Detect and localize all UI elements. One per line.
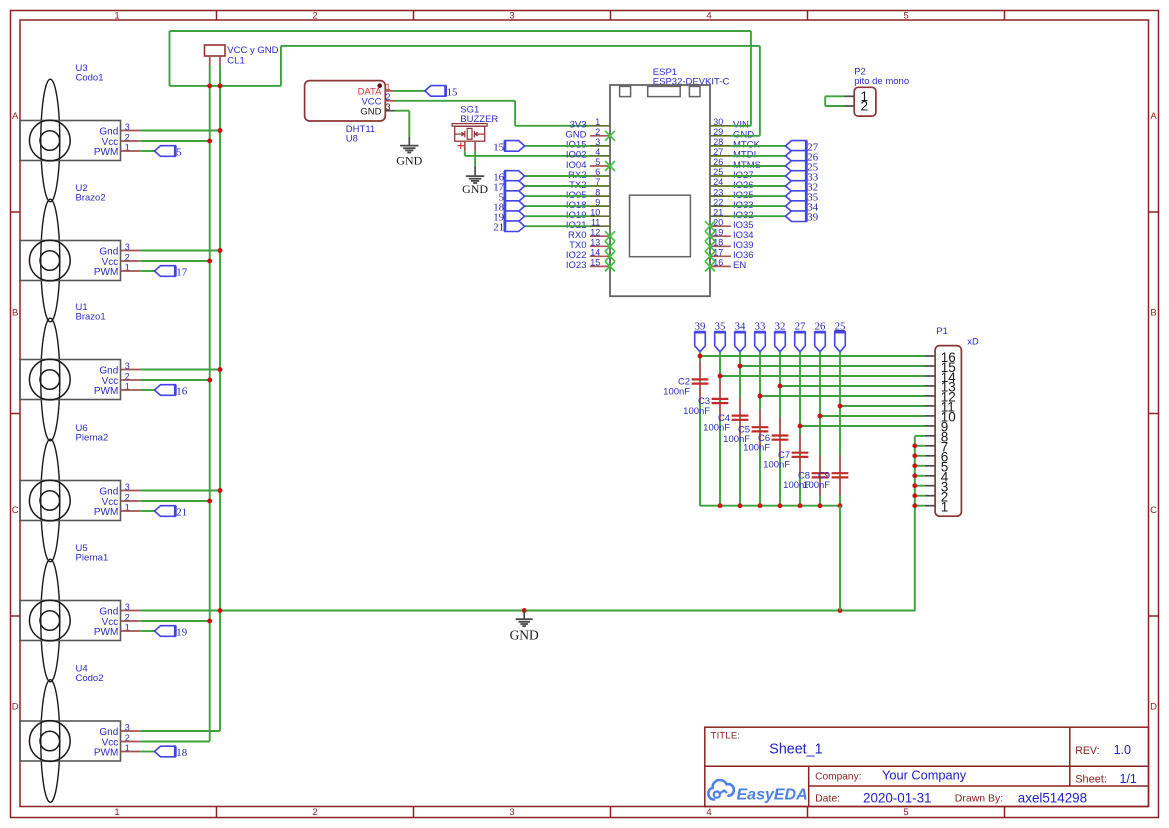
wire U8 GND horizontal [395,110,410,112]
motor U5 pin 3 stub [121,610,141,612]
junction at VCC bus / tie [207,83,212,88]
wire U2 PWM to net flag 17 [140,270,154,272]
svg-text:EN: EN [733,260,746,271]
ESP1 pin 20 IO35 stub [710,225,731,227]
ESP1 pin 13 TX0 stub [590,245,610,247]
svg-text:100nF: 100nF [803,480,830,491]
ESP1 pin 1 3V3 stub [590,125,610,127]
buzzer SG1 pin 1 stub [464,141,466,151]
wire column 26 vertical [819,352,821,506]
svg-text:A: A [1150,111,1157,122]
capacitor C9 bottom plate [832,476,849,478]
svg-text:15: 15 [590,258,600,268]
wire top VIN net: frame-left vertical [169,31,171,86]
capacitor C3 top plate [712,398,729,400]
motor U3 outer circle [29,120,70,161]
capacitor C6 top plate [772,434,789,436]
wire U6 Gnd to GND bus [140,490,220,492]
svg-text:GND: GND [510,627,539,642]
wire to P1 pin 15 [740,365,925,367]
buzzer SG1 left plate [464,131,466,138]
net port CL1 VCC y GND body [205,45,226,56]
svg-text:30: 30 [713,117,723,127]
frame row tick y=212 left [11,211,21,213]
P1 pin 8 stub [925,435,935,437]
frame row tick y=616 left [11,615,21,617]
motor U6 inner circle [40,491,60,511]
junction bottom bus x=840 [838,503,843,508]
P1 pin 4 stub [925,475,935,477]
svg-text:3: 3 [595,137,600,147]
motor U4 body [20,721,121,761]
ESP1 pin 22 IO33 stub [710,205,731,207]
ESP1 pin 12 RX0 stub [590,235,610,237]
net flag 18 on U4 PWM [155,746,176,757]
wire matrix bottom bus [700,505,840,507]
capacitor C2 top plate [692,378,709,380]
motor U2 propeller blade ellipse [41,199,60,322]
ESP1 pin 17 no-connect X [705,251,715,261]
motor U3 propeller blade ellipse [41,79,60,202]
junction P1 pin 3 tap [912,483,917,488]
wire P1 pin 2 tap [915,495,925,497]
svg-text:PWM: PWM [94,147,118,158]
ground symbol stem SG1 [474,166,476,176]
capacitor C4 bottom plate [732,419,749,421]
net flag 16 at ESP1 pin 6 [505,171,525,182]
wire ESP1 pin 28 to net flag 27 [731,145,786,147]
ground symbol U8 [400,145,418,147]
svg-text:PWM: PWM [94,747,118,758]
net flag 5 at ESP1 pin 8 [505,191,525,202]
ESP1 pin 15 IO23 stub [590,265,610,267]
P1 pin 15 stub [925,365,935,367]
net flag 27 at ESP1 pin 28 [786,141,807,152]
wire P1 pin 4 tap [915,475,925,477]
motor U3 pin 3 stub [121,130,141,132]
ESP1 pin 16 no-connect X [705,261,715,271]
net flag 35 at ESP1 pin 23 [786,191,807,202]
svg-text:15: 15 [447,86,458,98]
ESP1 pin 5 IO04 stub [590,165,610,167]
junction ground bus at GND symbol [522,608,527,613]
motor U3 pin 2 stub [121,140,141,142]
svg-text:Date:: Date: [815,793,840,805]
capacitor C2 top stub [699,362,701,380]
ESP1 pin 3 IO15 stub [590,145,610,147]
svg-text:12: 12 [590,227,600,237]
motor U5 body [20,601,121,641]
svg-text:P1: P1 [936,326,948,337]
junction column x=740 row P1 pin 15 [738,364,743,369]
ESP1 pin 19 IO34 stub [710,235,731,237]
wire U4 PWM to net flag 18 [140,751,154,753]
wire ESP1 pin 23 to net flag 35 [731,195,786,197]
ESP1 pin 12 no-connect X [605,231,615,241]
svg-text:Gnd: Gnd [99,126,118,137]
sensor U8 DHT11 body [305,81,386,121]
svg-text:22: 22 [713,197,723,207]
svg-text:13: 13 [590,238,600,248]
svg-text:Codo1: Codo1 [76,73,104,84]
junction column x=780 row P1 pin 13 [778,384,783,389]
junction column x=820 row P1 pin 10 [818,414,823,419]
capacitor C5 top plate [752,426,769,428]
wire GND bus vertical x=220 [219,66,221,732]
ESP1 pin 7 TX2 stub [590,185,610,187]
buzzer SG1 right arrowhead [475,132,478,136]
junction U6 Vcc [207,499,212,504]
U8 pin 1 marker dot [377,83,382,88]
svg-text:3: 3 [509,807,514,818]
buzzer SG1 pin 2 stub [474,141,476,151]
svg-text:Gnd: Gnd [99,486,118,497]
motor U2 pin 1 stub [121,270,141,272]
junction P1 pin 7 tap [912,443,917,448]
ground symbol stem on bus [523,611,525,620]
net flag 17 on U2 PWM [155,266,176,277]
net flag 25 column top [835,332,846,352]
wire U5 PWM to net flag 19 [140,630,154,632]
junction bottom bus x=800 [798,503,803,508]
frame column tick x=216.5 bottom [216,807,218,818]
wire P2 loop bottom [825,105,844,107]
junction U6 Gnd [218,488,223,493]
mcu ESP1 top tab middle [648,86,681,96]
EasyEDA logo cloud [708,780,734,800]
frame column tick x=807.5 bottom [807,807,809,818]
motor U5 inner circle [40,611,60,631]
ESP1 pin 5 no-connect X [605,161,615,171]
svg-text:39: 39 [695,321,706,333]
title block date row divider [809,785,1149,787]
svg-text:B: B [12,308,18,319]
svg-text:Gnd: Gnd [99,727,118,738]
svg-text:21: 21 [493,222,504,234]
junction ground bus at capacitor column [838,608,843,613]
capacitor C6 bottom stub [779,440,781,458]
motor U2 pin 2 stub [121,260,141,262]
capacitor C7 top stub [799,435,801,453]
motor U1 pin 2 stub [121,379,141,381]
net flag 34 at ESP1 pin 22 [786,201,807,212]
svg-text:PWM: PWM [94,507,118,518]
svg-text:TITLE:: TITLE: [711,730,741,741]
svg-text:GND: GND [360,107,381,118]
svg-text:21: 21 [713,207,723,217]
svg-text:26: 26 [713,157,723,167]
svg-text:19: 19 [176,627,187,639]
title block row divider [705,765,1149,767]
motor U2 body [20,241,121,281]
wire riser joins ground bus corner [914,610,917,612]
wire top GND net: vertical x=280.9 [280,46,282,86]
motor U2 outer circle [29,240,70,281]
ground symbol SG1 [466,175,484,177]
svg-text:C: C [1150,505,1157,516]
junction U3 Gnd [218,128,223,133]
svg-text:1: 1 [114,10,119,21]
svg-text:26: 26 [815,321,826,333]
frame column tick x=413.5 top [413,11,415,21]
svg-text:Gnd: Gnd [99,365,118,376]
mcu ESP1 top tab left [620,86,631,96]
svg-text:2020-01-31: 2020-01-31 [863,790,932,805]
motor U1 outer circle [29,359,70,400]
mcu ESP1 inner module square [630,195,691,257]
wire ESP1 pin 25 to net flag 33 [731,175,786,177]
svg-text:B: B [1150,308,1156,319]
capacitor C6 bottom plate [772,439,789,441]
svg-text:GND: GND [396,154,422,168]
junction bottom bus x=720 [718,503,723,508]
net flag 5 on U3 PWM [155,146,176,157]
capacitor C9 top plate [832,472,849,474]
wire U8 VCC horizontal [395,100,516,102]
svg-text:15: 15 [493,141,504,153]
capacitor C8 bottom plate [812,476,829,478]
connector P1 body [935,346,961,517]
junction U1 Gnd [218,367,223,372]
ESP1 pin 10 IO19 stub [590,215,610,217]
EasyEDA logo wheel [714,792,720,798]
buzzer SG1 right plate [473,131,475,138]
junction U1 Vcc [207,378,212,383]
motor U5 pin 1 stub [121,630,141,632]
net flag 39 at ESP1 pin 21 [786,211,807,222]
motor U3 body [20,121,121,161]
motor U4 propeller blade ellipse [41,680,60,803]
wire net 21 to ESP1 pin 11 [525,225,590,227]
net flag 17 at ESP1 pin 7 [505,181,525,192]
buzzer SG1 left arrowhead [461,132,464,136]
wire P1 pin 7 tap [915,445,925,447]
P1 pin 12 stub [925,395,935,397]
motor U2 inner circle [40,251,60,271]
wire net 16 to ESP1 pin 6 [525,175,590,177]
junction P1 pin 2 tap [912,493,917,498]
ESP1 pin 29 GND stub [710,135,731,137]
junction U3 Vcc [207,139,212,144]
svg-text:8: 8 [595,187,600,197]
svg-text:Pierna2: Pierna2 [76,433,109,444]
svg-text:PWM: PWM [94,267,118,278]
frame column tick x=610.5 top [610,11,612,21]
svg-text:Brazo1: Brazo1 [76,312,106,323]
P2 pin 2 stub [845,105,855,107]
svg-text:Company:: Company: [815,772,861,783]
motor U4 pin 2 stub [121,741,141,743]
ESP1 pin 14 IO22 stub [590,255,610,257]
ESP1 pin 9 IO18 stub [590,205,610,207]
P1 pin 7 stub [925,445,935,447]
wire column 32 vertical [779,352,781,506]
svg-text:33: 33 [755,321,766,333]
frame row tick y=413.5 left [11,413,21,415]
capacitor C9 bottom stub [839,477,841,495]
wire to P1 pin 9 [800,425,925,427]
svg-text:16: 16 [176,386,187,398]
title block outline [705,727,1149,806]
wire to P1 pin 13 [780,385,925,387]
wire U8 VCC to ESP 3V3 [515,125,590,127]
junction P1 pin 6 tap [912,453,917,458]
svg-text:11: 11 [591,217,600,227]
ESP1 pin 11 IO21 stub [590,225,610,227]
wire U8 VCC vertical [514,101,516,126]
wire net 19 to ESP1 pin 10 [525,215,590,217]
wire U5 Gnd long ground bus [140,610,915,612]
svg-text:2: 2 [861,99,869,114]
svg-text:34: 34 [735,321,746,333]
net flag 25 at ESP1 pin 26 [786,161,807,172]
capacitor C4 bottom stub [739,420,741,438]
capacitor C7 bottom stub [799,457,801,475]
buzzer SG1 right lead [476,133,485,135]
capacitor C9 top stub [839,455,841,473]
svg-text:100nF: 100nF [663,386,690,397]
wire SG1 pin1 to ESP IO02 [465,155,590,157]
svg-text:EasyEDA: EasyEDA [737,786,808,803]
P1 pin 1 stub [925,505,935,507]
P1 pin 2 stub [925,495,935,497]
svg-text:Sheet_1: Sheet_1 [769,742,822,758]
svg-text:Brazo2: Brazo2 [76,193,106,204]
wire top GND net: horizontal y=45.9 [281,45,760,47]
motor U6 body [20,481,121,521]
capacitor C3 bottom plate [712,402,729,404]
CL1 pin 2 stub [219,56,221,66]
wire P1 ground riser vertical [914,436,916,611]
wire to P1 pin 16 [700,355,925,357]
wire ESP1 pin 24 to net flag 32 [731,185,786,187]
svg-text:32: 32 [775,321,786,333]
net flag 15 at ESP1 pin 3 [505,141,525,152]
capacitor C8 top stub [819,455,821,473]
svg-text:18: 18 [176,747,187,759]
svg-text:29: 29 [713,127,723,137]
wire U3 Vcc to VCC bus [140,140,209,142]
frame column tick x=1004.5 bottom [1004,807,1006,818]
ESP1 pin 30 VIN stub [710,125,731,127]
svg-text:2: 2 [312,807,317,818]
motor U1 pin 1 stub [121,389,141,391]
frame row tick y=413.5 right [1149,413,1159,415]
svg-text:14: 14 [590,248,600,258]
svg-text:A: A [12,111,19,122]
svg-text:pito de mono: pito de mono [854,76,909,87]
net flag 26 at ESP1 pin 27 [786,151,807,162]
wire U5 Vcc to VCC bus [140,620,209,622]
net flag 19 on U5 PWM [155,626,176,637]
svg-text:Pierna1: Pierna1 [76,553,109,564]
frame column tick x=216.5 top [216,11,218,21]
junction column x=840 row P1 pin 11 [838,404,843,409]
junction U5 Gnd at GND bus [218,608,223,613]
wire SG1 pin2 vertical [474,151,476,166]
motor U6 outer circle [29,480,70,521]
wire top VIN net: horizontal y=31 [170,30,751,32]
svg-text:24: 24 [713,177,723,187]
wire U6 PWM to net flag 21 [140,510,154,512]
wire column 33 vertical [759,352,761,506]
wire U3 Gnd to GND bus [140,130,220,132]
net flag 26 column top [815,332,826,352]
net flag 16 on U1 PWM [155,385,176,396]
ESP1 pin 2 no-connect X [605,131,615,141]
P1 pin 16 stub [925,355,935,357]
svg-text:25: 25 [713,167,723,177]
ESP1 pin 24 IO26 stub [710,185,731,187]
motor U6 propeller blade ellipse [41,439,60,562]
junction column x=720 row P1 pin 14 [718,374,723,379]
buzzer SG1 plus sign [458,145,465,147]
P1 pin 13 stub [925,385,935,387]
junction P1 pin 1 tap [912,503,917,508]
U8 pin 2 stub [385,100,394,102]
wire ESP1 pin 26 to net flag 25 [731,165,786,167]
net flag 27 column top [795,332,806,352]
net flag 39 column top [695,332,706,352]
wire U2 Vcc to VCC bus [140,260,209,262]
svg-text:28: 28 [713,137,723,147]
ESP1 pin 25 IO27 stub [710,175,731,177]
capacitor C8 top plate [812,472,829,474]
ESP1 pin 17 IO36 stub [710,255,731,257]
svg-text:2: 2 [312,10,317,21]
svg-text:Sheet:: Sheet: [1075,773,1107,785]
junction bottom bus x=780 [778,503,783,508]
ESP1 pin 13 no-connect X [605,241,615,251]
wire U4 Gnd to bus corner [140,730,220,732]
net flag 18 at ESP1 pin 9 [505,201,525,212]
motor U4 pin 1 stub [121,751,141,753]
junction column x=800 row P1 pin 9 [798,424,803,429]
motor U4 pin 3 stub [121,730,141,732]
wire to P1 pin 10 [820,415,925,417]
wire net 15 to ESP1 pin 3 [525,145,590,147]
svg-text:27: 27 [795,321,806,333]
ESP1 pin 21 IO32 stub [710,215,731,217]
junction U2 Gnd [218,248,223,253]
svg-text:7: 7 [595,177,600,187]
svg-text:PWM: PWM [94,386,118,397]
svg-text:1.0: 1.0 [1114,743,1131,757]
wire P1 pin 5 tap [915,465,925,467]
wire P1 pin 1 tap [915,505,925,507]
wire VCC bus vertical x=209.7 [209,66,211,742]
net flag 34 column top [735,332,746,352]
motor U6 pin 2 stub [121,500,141,502]
ESP1 pin 2 GND stub [590,135,610,137]
ESP1 pin 16 EN stub [710,265,731,267]
svg-text:100nF: 100nF [683,406,710,417]
ESP1 pin 27 MTDI stub [710,155,731,157]
mcu ESP1 top tab right [689,86,700,96]
frame row tick y=212 right [1149,211,1159,213]
wire P1 pin 8 horizontal [915,435,925,437]
capacitor C2 bottom plate [692,383,709,385]
net flag 32 at ESP1 pin 24 [786,181,807,192]
net flag 35 column top [715,332,726,352]
ESP1 pin 18 IO39 stub [710,245,731,247]
svg-text:1: 1 [941,500,949,515]
junction P1 pin 5 tap [912,463,917,468]
EasyEDA logo handle [720,791,727,794]
ESP1 pin 15 no-connect X [605,261,615,271]
capacitor C5 bottom stub [759,431,761,449]
net flag 21 at ESP1 pin 11 [505,221,525,232]
